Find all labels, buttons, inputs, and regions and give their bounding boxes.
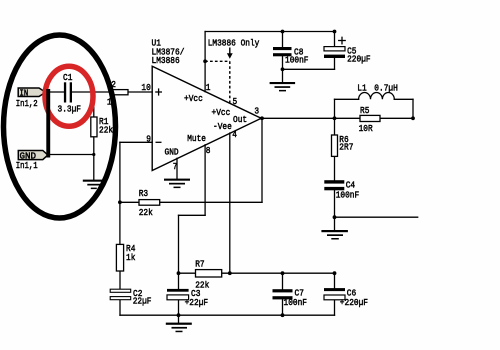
svg-text:22k: 22k <box>195 279 209 290</box>
svg-text:+22µF: +22µF <box>185 297 209 308</box>
svg-text:C1: C1 <box>63 72 73 83</box>
svg-text:3.3µF: 3.3µF <box>58 103 82 114</box>
svg-text:LM3886: LM3886 <box>152 55 180 66</box>
svg-text:In1,2: In1,2 <box>16 98 38 109</box>
svg-text:1k: 1k <box>126 252 136 263</box>
svg-text:L1: L1 <box>357 82 367 93</box>
svg-text:100nF: 100nF <box>284 297 308 308</box>
svg-text:5: 5 <box>233 96 238 107</box>
svg-text:8: 8 <box>206 145 211 156</box>
svg-text:+Vcc: +Vcc <box>212 107 231 118</box>
svg-text:3: 3 <box>254 106 259 117</box>
svg-text:10: 10 <box>141 82 151 93</box>
svg-text:2: 2 <box>111 79 116 90</box>
svg-text:GND: GND <box>165 147 179 158</box>
svg-text:220µF: 220µF <box>347 54 371 65</box>
svg-text:R7: R7 <box>195 259 204 270</box>
svg-text:R5: R5 <box>360 105 370 116</box>
svg-text:1: 1 <box>206 82 211 93</box>
svg-text:1: 1 <box>107 97 112 108</box>
svg-text:7: 7 <box>173 161 178 172</box>
svg-text:+220µF: +220µF <box>340 297 368 308</box>
svg-text:2R7: 2R7 <box>339 142 353 153</box>
svg-text:IN: IN <box>20 88 29 99</box>
svg-text:22k: 22k <box>99 124 113 135</box>
svg-text:LM3886 Only: LM3886 Only <box>208 38 260 49</box>
svg-text:Mute: Mute <box>187 133 206 144</box>
svg-text:22k: 22k <box>139 207 153 218</box>
svg-text:-Vee: -Vee <box>213 121 232 132</box>
svg-text:9: 9 <box>146 134 151 145</box>
svg-text:10R: 10R <box>359 123 373 134</box>
svg-text:100nF: 100nF <box>285 55 309 66</box>
svg-text:Out: Out <box>233 114 247 125</box>
svg-text:22µF: 22µF <box>133 295 152 306</box>
svg-text:In1,1: In1,1 <box>16 160 38 171</box>
svg-text:+Vcc: +Vcc <box>184 93 203 104</box>
svg-text:R3: R3 <box>139 188 149 199</box>
svg-text:0.7µH: 0.7µH <box>374 82 398 93</box>
svg-text:100nF: 100nF <box>336 189 360 200</box>
svg-text:4: 4 <box>232 129 237 140</box>
